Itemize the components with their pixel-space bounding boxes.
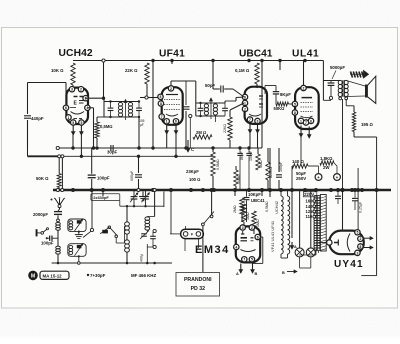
svg-text:M: M	[31, 273, 35, 279]
svg-text:7+30pF: 7+30pF	[90, 273, 106, 278]
svg-text:2: 2	[359, 237, 361, 241]
svg-text:7: 7	[161, 115, 163, 119]
svg-text:B: B	[255, 272, 258, 276]
svg-text:2: 2	[244, 107, 246, 111]
svg-text:1: 1	[300, 119, 302, 123]
svg-text:8: 8	[359, 245, 361, 249]
svg-text:7: 7	[305, 121, 307, 125]
svg-text:22KΩ: 22KΩ	[223, 124, 227, 133]
svg-text:7: 7	[249, 118, 251, 122]
svg-text:6: 6	[310, 119, 312, 123]
svg-text:2000pF: 2000pF	[33, 212, 48, 217]
svg-text:440pF: 440pF	[31, 116, 44, 121]
svg-text:MF 466 KHZ: MF 466 KHZ	[131, 273, 156, 278]
svg-text:6: 6	[175, 120, 177, 124]
svg-text:160pF: 160pF	[279, 161, 283, 172]
svg-text:0,5MΩ: 0,5MΩ	[216, 159, 220, 170]
svg-text:100pF: 100pF	[97, 176, 110, 181]
svg-text:3: 3	[71, 88, 73, 92]
svg-text:PD 32: PD 32	[191, 286, 206, 292]
svg-text:UY41: UY41	[334, 259, 364, 270]
svg-text:2M Ω: 2M Ω	[196, 130, 206, 135]
svg-text:195 Ω: 195 Ω	[361, 122, 373, 127]
svg-text:VF41 UL41 UF41: VF41 UL41 UF41	[270, 220, 275, 252]
svg-text:100 Ω: 100 Ω	[189, 177, 200, 182]
svg-text:+: +	[336, 175, 339, 180]
svg-text:UF41: UF41	[159, 48, 185, 59]
svg-text:1: 1	[244, 101, 246, 105]
svg-text:A: A	[236, 272, 239, 276]
svg-text:0,5MΩ: 0,5MΩ	[100, 124, 113, 129]
svg-text:1: 1	[68, 116, 70, 120]
svg-text:+: +	[317, 175, 320, 180]
svg-text:5: 5	[294, 102, 296, 106]
svg-text:MA 15-12: MA 15-12	[43, 274, 63, 279]
svg-text:6: 6	[65, 106, 67, 110]
svg-text:2x330pF: 2x330pF	[93, 195, 109, 200]
svg-text:3: 3	[257, 119, 259, 123]
svg-text:7: 7	[243, 258, 245, 262]
svg-text:22K Ω: 22K Ω	[125, 68, 138, 73]
svg-text:2: 2	[170, 87, 172, 91]
svg-text:4: 4	[235, 245, 237, 249]
svg-text:2: 2	[80, 88, 82, 92]
svg-text:1: 1	[166, 120, 168, 124]
svg-text:0,1M Ω: 0,1M Ω	[235, 68, 250, 73]
svg-text:6: 6	[244, 95, 246, 99]
svg-text:3: 3	[242, 226, 244, 230]
svg-text:10K Ω: 10K Ω	[51, 68, 64, 73]
svg-text:8: 8	[160, 102, 162, 106]
svg-text:005µF: 005µF	[130, 170, 134, 181]
svg-text:50pF: 50pF	[205, 83, 215, 88]
svg-text:5: 5	[72, 121, 74, 125]
svg-text:A: A	[294, 245, 297, 249]
svg-text:2: 2	[251, 226, 253, 230]
svg-text:B: B	[282, 271, 285, 275]
svg-text:30pF: 30pF	[107, 150, 117, 155]
svg-text:400µ: 400µ	[140, 254, 144, 262]
svg-text:50KΩ: 50KΩ	[274, 106, 285, 111]
svg-text:110: 110	[306, 214, 313, 219]
svg-text:0,5MΩ: 0,5MΩ	[265, 201, 269, 212]
svg-text:250V: 250V	[296, 176, 306, 181]
svg-text:140 Ω: 140 Ω	[292, 159, 304, 164]
svg-text:UCH42: UCH42	[274, 200, 279, 214]
svg-text:50K Ω: 50K Ω	[36, 176, 49, 181]
svg-text:UBC41: UBC41	[239, 48, 273, 59]
svg-text:5: 5	[80, 121, 82, 125]
svg-text:2MΩ: 2MΩ	[233, 205, 237, 213]
svg-text:3: 3	[356, 251, 358, 255]
svg-text:UL41: UL41	[292, 48, 319, 59]
svg-text:5: 5	[356, 231, 358, 235]
svg-text:8: 8	[294, 111, 296, 115]
svg-text:5: 5	[160, 95, 162, 99]
svg-text:100pF: 100pF	[249, 150, 253, 161]
svg-text:5000pF: 5000pF	[330, 65, 345, 70]
svg-text:UBC41: UBC41	[251, 198, 265, 203]
svg-text:µF: µF	[140, 123, 144, 127]
svg-text:0,25µF: 0,25µF	[359, 201, 363, 213]
svg-text:EM34: EM34	[195, 244, 230, 256]
svg-text:220V: 220V	[304, 192, 314, 197]
svg-text:UCH42: UCH42	[59, 48, 93, 59]
svg-text:23KpF: 23KpF	[186, 169, 199, 174]
svg-text:10KpF: 10KpF	[248, 192, 261, 197]
svg-text:6: 6	[257, 235, 259, 239]
svg-text:100pF: 100pF	[41, 241, 54, 246]
svg-text:8KpF: 8KpF	[280, 92, 291, 97]
svg-text:5: 5	[251, 258, 253, 262]
svg-text:2: 2	[303, 86, 305, 90]
svg-text:PRANDONI: PRANDONI	[184, 277, 212, 283]
